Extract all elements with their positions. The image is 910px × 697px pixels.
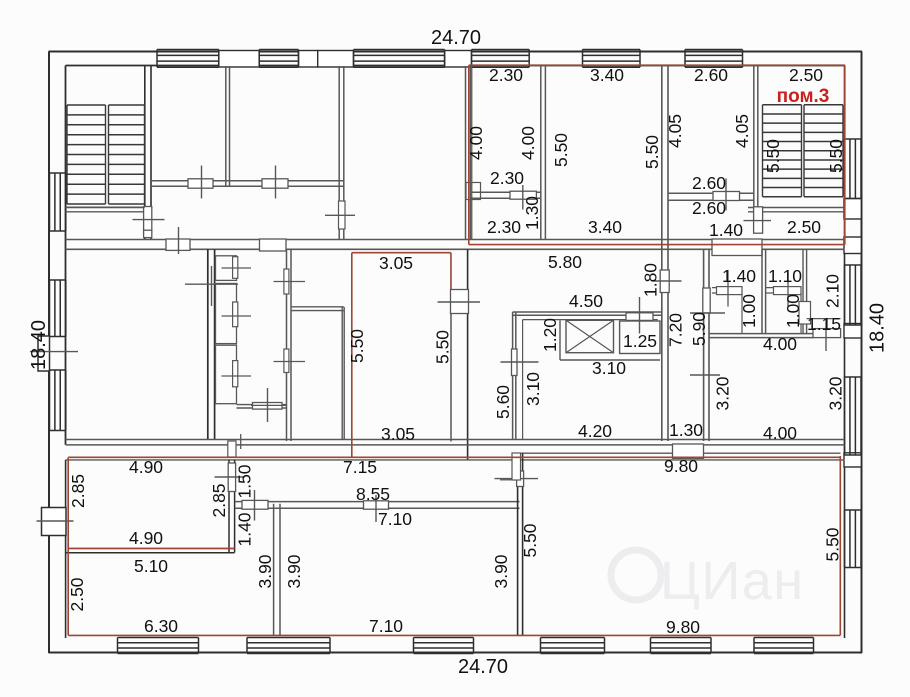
svg-text:7.15: 7.15 — [343, 457, 377, 477]
svg-text:4.90: 4.90 — [129, 457, 163, 477]
svg-text:5.50: 5.50 — [520, 523, 540, 557]
svg-text:5.50: 5.50 — [642, 135, 662, 169]
svg-text:24.70: 24.70 — [458, 656, 508, 678]
svg-text:3.40: 3.40 — [590, 65, 624, 85]
svg-text:4.05: 4.05 — [732, 114, 752, 148]
svg-text:2.30: 2.30 — [487, 217, 521, 237]
svg-text:7.10: 7.10 — [378, 509, 412, 529]
svg-text:2.60: 2.60 — [694, 65, 728, 85]
svg-text:4.90: 4.90 — [129, 528, 163, 548]
svg-text:3.90: 3.90 — [284, 554, 304, 588]
svg-text:4.05: 4.05 — [665, 114, 685, 148]
svg-text:24.70: 24.70 — [431, 27, 481, 49]
svg-text:5.50: 5.50 — [551, 133, 571, 167]
svg-text:2.85: 2.85 — [68, 474, 88, 508]
svg-text:1.00: 1.00 — [783, 294, 803, 328]
svg-text:1.50: 1.50 — [235, 464, 255, 498]
svg-text:3.90: 3.90 — [255, 554, 275, 588]
svg-text:2.30: 2.30 — [489, 65, 523, 85]
svg-text:1.40: 1.40 — [722, 266, 756, 286]
svg-text:7.10: 7.10 — [369, 616, 403, 636]
svg-text:8.55: 8.55 — [356, 484, 390, 504]
svg-text:4.50: 4.50 — [569, 291, 603, 311]
svg-text:7.20: 7.20 — [666, 313, 686, 347]
svg-text:1.00: 1.00 — [739, 294, 759, 328]
svg-text:3.10: 3.10 — [592, 358, 626, 378]
svg-text:2.50: 2.50 — [789, 65, 823, 85]
svg-text:2.60: 2.60 — [692, 173, 726, 193]
svg-text:1.80: 1.80 — [641, 263, 661, 297]
svg-text:пом.3: пом.3 — [777, 86, 830, 107]
svg-text:1.15: 1.15 — [807, 314, 841, 334]
svg-text:5.50: 5.50 — [763, 139, 783, 173]
svg-text:3.20: 3.20 — [713, 376, 733, 410]
svg-text:1.25: 1.25 — [623, 331, 657, 351]
svg-text:1.10: 1.10 — [768, 266, 802, 286]
svg-text:3.05: 3.05 — [381, 424, 415, 444]
svg-text:5.10: 5.10 — [134, 556, 168, 576]
svg-text:18.40: 18.40 — [867, 303, 889, 353]
svg-text:3.90: 3.90 — [491, 554, 511, 588]
svg-text:3.40: 3.40 — [588, 217, 622, 237]
svg-text:3.10: 3.10 — [523, 372, 543, 406]
svg-text:2.85: 2.85 — [209, 483, 229, 517]
svg-text:3.05: 3.05 — [379, 253, 413, 273]
svg-text:1.40: 1.40 — [235, 512, 255, 546]
svg-text:2.50: 2.50 — [787, 217, 821, 237]
svg-text:1.20: 1.20 — [540, 318, 560, 352]
svg-text:5.90: 5.90 — [689, 312, 709, 346]
svg-text:4.00: 4.00 — [763, 334, 797, 354]
svg-text:4.00: 4.00 — [466, 126, 486, 160]
svg-text:4.00: 4.00 — [763, 423, 797, 443]
svg-text:1.30: 1.30 — [522, 196, 542, 230]
svg-text:6.30: 6.30 — [144, 616, 178, 636]
svg-text:18.40: 18.40 — [28, 320, 50, 370]
svg-text:2.30: 2.30 — [490, 168, 524, 188]
svg-text:2.10: 2.10 — [823, 274, 843, 308]
svg-text:2.50: 2.50 — [67, 577, 87, 611]
svg-text:1.30: 1.30 — [669, 420, 703, 440]
svg-text:5.60: 5.60 — [493, 385, 513, 419]
svg-text:4.20: 4.20 — [578, 421, 612, 441]
svg-text:5.80: 5.80 — [548, 252, 582, 272]
svg-text:4.00: 4.00 — [518, 126, 538, 160]
svg-text:5.50: 5.50 — [826, 139, 846, 173]
svg-text:5.50: 5.50 — [823, 527, 843, 561]
svg-text:5.50: 5.50 — [433, 330, 453, 364]
svg-text:1.40: 1.40 — [709, 220, 743, 240]
svg-text:2.60: 2.60 — [692, 198, 726, 218]
svg-text:9.80: 9.80 — [666, 617, 700, 637]
svg-text:9.80: 9.80 — [664, 456, 698, 476]
svg-text:ЦИан: ЦИан — [660, 551, 805, 611]
svg-text:5.50: 5.50 — [347, 329, 367, 363]
svg-text:3.20: 3.20 — [826, 376, 846, 410]
